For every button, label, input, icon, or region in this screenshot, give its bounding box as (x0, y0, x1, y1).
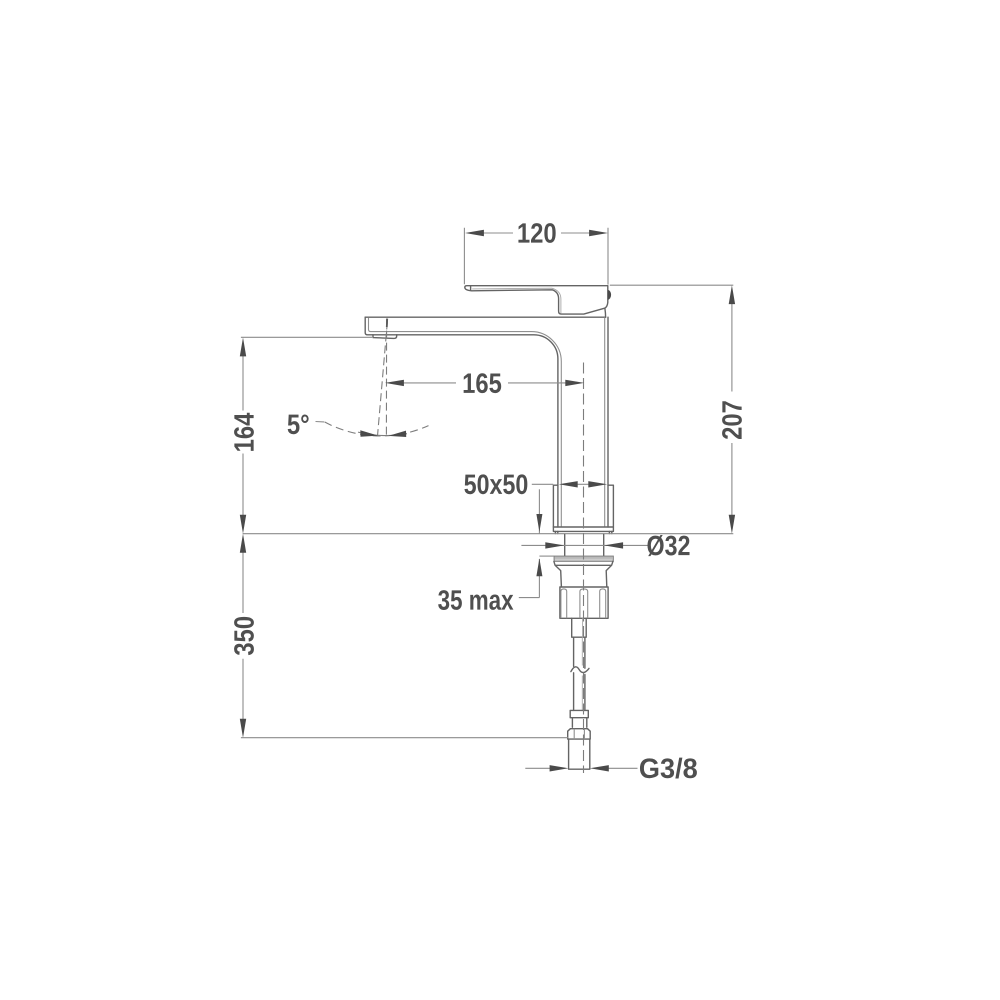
mounting nut knurled (560, 587, 608, 618)
label 5 degrees (288, 414, 309, 434)
water stream vertical dashed (385, 319, 387, 437)
hose upper (574, 637, 585, 668)
nut rib middle (580, 589, 588, 618)
hex nut facets (574, 729, 584, 739)
hose break squiggle (571, 667, 589, 673)
dim 120 extension lines (464, 228, 608, 285)
dim 350 arrow bottom (240, 719, 246, 738)
spout inner line (369, 318, 562, 527)
dim 164 arrow top (240, 338, 246, 357)
dim diameter 32 arrow left (545, 542, 564, 548)
centerline body axis (583, 363, 585, 774)
dim 207 extension line (610, 284, 734, 286)
aerator (373, 335, 397, 339)
body right inner line (604, 317, 606, 527)
label diameter 32 (647, 535, 689, 556)
hose connector (572, 618, 587, 637)
dim 35max upper line (538, 489, 540, 533)
hex nut (568, 729, 591, 739)
dim 35max upper arrow (536, 514, 542, 532)
dim 350 arrow top (240, 534, 246, 553)
dim 350 line (242, 552, 244, 719)
escutcheon base (553, 485, 613, 527)
label 164 (234, 413, 254, 451)
dim 35max lower arrow (536, 558, 542, 576)
dim G3/8 line (525, 767, 637, 769)
inlet pipe G3/8 (569, 739, 590, 769)
dim 164 line (242, 356, 244, 515)
dim 120 line (484, 232, 590, 234)
dim 350 extension line bottom (241, 737, 568, 739)
label 35 max (438, 590, 513, 610)
dim 120 arrow right (589, 230, 608, 236)
lever handle outline (465, 286, 608, 314)
stream origin tick (386, 319, 388, 327)
dim 50x50 arrow right (588, 481, 607, 487)
dim G3/8 arrow right (590, 765, 609, 771)
hose lower (574, 673, 585, 711)
base plate (553, 527, 613, 531)
spout outer outline left edge, underside and body left edge (365, 317, 558, 527)
5 degree arc arrowhead right (388, 431, 406, 437)
dim 165 arrow right (565, 380, 584, 386)
dim diameter 32 line (521, 544, 648, 546)
body top right corner (604, 308, 607, 317)
base rim (555, 531, 611, 533)
label 207 (722, 401, 742, 439)
supply cone nut (554, 561, 613, 586)
dim 207 line (731, 304, 733, 516)
dim 35max lower line (519, 559, 540, 598)
dim 165 arrow left (385, 380, 404, 386)
dim 207 arrow bottom (729, 515, 735, 534)
5 degree arc arrowhead left (360, 430, 378, 436)
label G3/8 (640, 758, 697, 779)
water stream tilted dashed (378, 322, 388, 437)
5 degree arc dashed (325, 422, 429, 436)
gasket (554, 556, 613, 561)
dim 165 line (404, 382, 566, 384)
nut rib right (600, 589, 606, 618)
label 120 (518, 223, 555, 243)
lever pivot cap (608, 290, 611, 300)
dim G3/8 arrow left (550, 765, 569, 771)
label 50x50 (464, 474, 527, 494)
spout and body top line (365, 316, 605, 318)
dim 164 extension line top (241, 336, 372, 338)
dim 207 arrow top (729, 285, 735, 304)
dim 120 arrow left (465, 230, 484, 236)
lever underside inner line (472, 288, 561, 313)
5 degree leader dash (316, 421, 325, 423)
counter line (243, 533, 734, 535)
dim 50x50 leader (532, 483, 553, 485)
dim 164 arrow bottom (240, 515, 246, 534)
nut rib left (561, 589, 567, 618)
dim 50x50 line (577, 483, 590, 485)
fitting neck (572, 718, 586, 728)
hose fitting (570, 710, 588, 717)
label 350 (234, 617, 254, 655)
dim diameter 32 arrow right (604, 542, 623, 548)
shank (565, 535, 604, 557)
label 165 (464, 373, 502, 393)
body right outer edge (607, 317, 609, 527)
lever tip cap line (470, 286, 472, 290)
5 degree arc solid center (358, 432, 407, 435)
dim 50x50 arrow left (559, 481, 578, 487)
gasket top witness line (539, 555, 554, 557)
